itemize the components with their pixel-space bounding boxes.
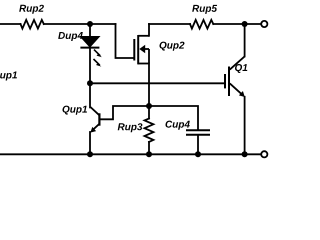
label Rup1 (clipped at edge)	[0, 72, 17, 81]
label Rup5	[192, 5, 217, 14]
node dot LED cathode / gate line	[87, 80, 93, 86]
wire top-right rail left of Rup5	[149, 23, 190, 25]
transistor Qup2 (NMOS)	[134, 35, 149, 64]
label Rup3	[118, 123, 143, 132]
wire Rup3 bottom to rail	[148, 142, 150, 154]
wire Qup2 drain up to top rail	[148, 24, 150, 36]
wire Qup1 emitter to bottom rail	[89, 132, 91, 154]
label Cup4	[166, 121, 190, 130]
terminal bottom right	[261, 151, 267, 157]
wire top-left rail left of Rup2	[0, 23, 21, 25]
resistor Rup3	[145, 119, 154, 142]
wire gate line to Q1	[90, 82, 224, 84]
resistor Rup2	[21, 20, 44, 29]
node dot top rail / LED	[87, 21, 93, 27]
node dot bottom rail Q1	[242, 151, 248, 157]
resistor Rup5	[190, 20, 213, 29]
wire top-right rail right of Rup5	[213, 23, 261, 25]
wire junction to Cup4 top	[149, 106, 198, 130]
capacitor Cup4	[186, 130, 210, 135]
wire Q1 collector to top rail	[244, 24, 246, 56]
wire LED cathode down to Qup1 collector	[89, 48, 91, 108]
transistor Q1 (IGBT)	[225, 56, 245, 97]
wire bottom rail	[0, 153, 261, 155]
LED Dup4	[80, 37, 102, 67]
wire Cup4 bottom to rail	[197, 135, 199, 154]
label Dup4	[58, 32, 83, 41]
node dot top rail right	[242, 21, 248, 27]
wire Qup1 base to junction	[99, 106, 149, 119]
wire Qup2 source down to junction	[148, 64, 150, 107]
transistor Qup1 (NPN)	[90, 107, 99, 133]
label Qup1	[63, 106, 88, 115]
wire top-left rail right of Rup2 to corner	[44, 23, 116, 25]
label Rup2	[19, 5, 44, 14]
label Qup2	[160, 42, 185, 51]
node dot bottom rail Qup1	[87, 151, 93, 157]
wire LED anode drop	[89, 24, 91, 37]
node dot bottom rail Rup3	[146, 151, 152, 157]
wire junction to Rup3 top	[148, 106, 150, 119]
node dot bottom rail Cup4	[195, 151, 201, 157]
label Q1	[235, 64, 247, 73]
wire corner down to Qup2 gate	[116, 24, 134, 58]
wire Q1 emitter to bottom rail	[244, 97, 246, 155]
node dot junction Rup3/Cup4	[146, 103, 152, 109]
terminal top right	[261, 21, 267, 27]
